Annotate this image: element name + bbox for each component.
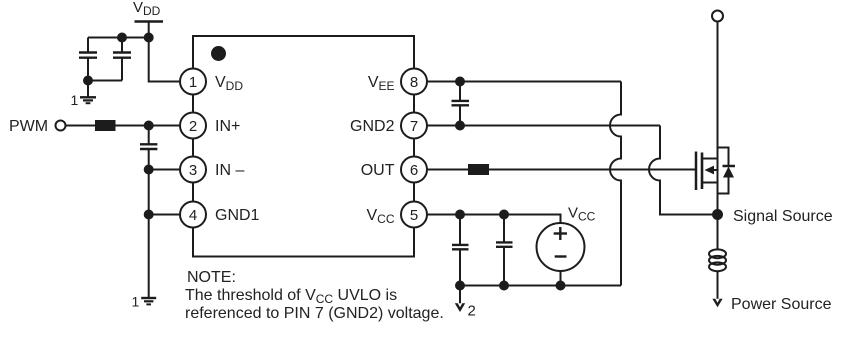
svg-text:1: 1 xyxy=(71,92,79,108)
svg-text:8: 8 xyxy=(410,74,418,91)
transistor Q1 drain stub xyxy=(702,158,718,160)
arrow terminal 2 xyxy=(455,303,465,312)
svg-text:OUT: OUT xyxy=(361,162,395,179)
wire pin8 VEE xyxy=(427,81,621,83)
svg-text:6: 6 xyxy=(410,162,418,179)
inductor L1 xyxy=(709,249,726,271)
capacitor C3 xyxy=(140,126,157,150)
pin 8 xyxy=(401,69,427,95)
node PWM input label xyxy=(9,118,48,135)
node junction xyxy=(455,281,465,291)
arrow terminal power source xyxy=(712,299,722,308)
pin 2 xyxy=(180,113,206,139)
svg-text:Signal Source: Signal Source xyxy=(733,208,833,225)
node signal source junction xyxy=(712,209,723,220)
pin 5 xyxy=(401,202,427,228)
svg-text:1: 1 xyxy=(132,294,140,310)
capacitor C5 xyxy=(452,215,469,286)
node VDD supply label xyxy=(133,0,161,18)
svg-text:The threshold of VCC UVLO is: The threshold of VCC UVLO is xyxy=(185,287,397,306)
svg-text:Power Source: Power Source xyxy=(731,296,832,313)
node junction xyxy=(117,33,127,43)
capacitor C6 xyxy=(496,215,513,286)
wire bottom rail xyxy=(460,285,621,287)
capacitor C2 xyxy=(113,38,131,81)
transistor Q1 channel bar xyxy=(701,153,704,190)
wire input bus xyxy=(148,150,150,298)
source VCC label xyxy=(568,205,596,224)
source VCC circle xyxy=(537,223,585,271)
pin-1 indicator dot xyxy=(211,46,226,61)
transistor Q1 gate bar xyxy=(695,152,698,191)
wire inductor to arrow xyxy=(717,272,719,300)
wire VDD vertical xyxy=(149,22,180,82)
pin labels left xyxy=(215,74,260,224)
wire to arrow 2 xyxy=(459,286,461,305)
svg-text:4: 4 xyxy=(189,207,197,224)
VDD supply bar xyxy=(135,20,164,23)
IC body U1 xyxy=(193,36,414,257)
pin 1 xyxy=(180,69,206,95)
wire VCC source bottom xyxy=(560,271,562,286)
node junction xyxy=(83,76,93,86)
wire VDD branch to caps xyxy=(88,37,149,39)
node junction xyxy=(144,121,154,131)
pin labels right xyxy=(350,74,395,226)
transistor Q1 body arrow xyxy=(705,166,718,175)
terminal PWM xyxy=(56,121,66,131)
wire R1 to pin2 xyxy=(116,125,181,127)
wire drain vertical xyxy=(717,22,719,215)
wire to inductor xyxy=(717,215,719,250)
wire GND2 vertical with hop xyxy=(649,126,712,215)
wire pin7 GND2 xyxy=(427,125,660,127)
note text xyxy=(185,269,444,322)
wire to pin4 xyxy=(149,214,180,216)
svg-text:VDD: VDD xyxy=(133,0,161,18)
svg-text:5: 5 xyxy=(410,207,418,224)
wire PWM to R1 xyxy=(66,125,96,127)
pin numbers xyxy=(189,74,418,224)
svg-text:NOTE:: NOTE: xyxy=(187,269,236,286)
node junction xyxy=(455,210,465,220)
node junction xyxy=(455,121,465,131)
svg-text:VCC: VCC xyxy=(568,205,596,224)
wire cap bottoms xyxy=(88,80,122,82)
wire to pin3 xyxy=(149,169,180,171)
transistor Q1 source stub xyxy=(702,182,718,184)
svg-text:1: 1 xyxy=(189,74,197,91)
node junction xyxy=(556,281,566,291)
pin 7 xyxy=(401,113,427,139)
svg-text:referenced to PIN 7 (GND2) vol: referenced to PIN 7 (GND2) voltage. xyxy=(185,305,444,322)
node junction xyxy=(144,210,154,220)
svg-text:IN –: IN – xyxy=(215,162,244,179)
capacitor C1 xyxy=(79,38,97,81)
terminal top (drain) xyxy=(712,11,723,22)
svg-text:7: 7 xyxy=(410,118,418,135)
node junction xyxy=(144,165,154,175)
svg-text:3: 3 xyxy=(189,162,197,179)
svg-text:PWM: PWM xyxy=(9,118,48,135)
pin 3 xyxy=(180,157,206,183)
svg-text:GND1: GND1 xyxy=(215,207,260,224)
ground GND symbol 1 (top-left) xyxy=(80,81,96,104)
svg-text:2: 2 xyxy=(189,118,197,135)
resistor R1 xyxy=(95,120,116,131)
node junction xyxy=(499,281,509,291)
diode D1 body diode xyxy=(718,148,736,194)
svg-text:2: 2 xyxy=(468,303,476,320)
pin 4 xyxy=(180,202,206,228)
node junction xyxy=(499,210,509,220)
svg-text:IN+: IN+ xyxy=(215,118,240,135)
pin 6 xyxy=(401,157,427,183)
resistor R2 xyxy=(468,164,489,175)
svg-text:GND2: GND2 xyxy=(350,118,395,135)
capacitor C4 xyxy=(452,82,470,126)
wire VEE vertical with hops xyxy=(610,82,621,286)
wire pin5 VCC xyxy=(427,215,561,224)
wire pin6 OUT to gate xyxy=(427,169,696,171)
node junction xyxy=(144,33,154,43)
node junction xyxy=(455,77,465,87)
ground GND symbol 1 (bottom-left) xyxy=(141,298,156,304)
